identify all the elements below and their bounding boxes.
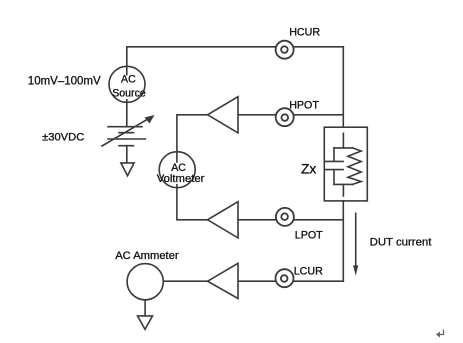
ground (below ammeter)	[138, 316, 153, 330]
DUT internal: bottom bar	[334, 183, 353, 185]
resistor R (DUT right branch zigzag)	[348, 148, 361, 185]
DUT internal: bottom stem	[342, 184, 344, 196]
op-amp U1 (HPOT buffer)	[208, 97, 238, 133]
svg-text:Voltmeter: Voltmeter	[157, 173, 205, 185]
terminal HPOT	[276, 108, 294, 126]
svg-text:Zx: Zx	[301, 161, 316, 176]
svg-text:LCUR: LCUR	[294, 265, 323, 277]
wire: AC source to DC bias battery	[126, 100, 128, 127]
arrow: DUT current	[353, 213, 358, 275]
battery B1 (variable DC bias +-30VDC)	[102, 115, 155, 146]
terminal LPOT	[276, 208, 294, 226]
wire: ammeter to ground	[144, 300, 146, 316]
wire: LCUR row	[238, 280, 343, 282]
op-amp U2 (LPOT buffer)	[208, 202, 238, 238]
ground (below DC bias)	[121, 163, 134, 176]
svg-text:±30VDC: ±30VDC	[42, 132, 84, 144]
meter M1 (AC Voltmeter circle)	[159, 152, 195, 188]
capacitor C (DUT left branch)	[326, 148, 344, 185]
wire: LPOT row	[238, 219, 343, 221]
DUT Zx box	[324, 127, 367, 201]
svg-text:10mV–100mV: 10mV–100mV	[28, 75, 101, 87]
source V1 (AC Source circle)	[109, 66, 145, 102]
label AC Voltmeter	[157, 162, 205, 185]
svg-text:DUT current: DUT current	[370, 236, 433, 248]
wire: top HCUR wire from AC source down-stub and corner to right bus	[127, 47, 343, 75]
wire: right vertical bus from HCUR corner to Zx box top	[342, 47, 344, 127]
wire: HPOT buffer output to voltmeter top	[177, 115, 208, 162]
wire: HPOT row	[238, 114, 343, 116]
wire: LCUR buffer output to ammeter	[163, 280, 207, 282]
meter M2 (AC Ammeter circle)	[127, 264, 163, 300]
svg-text:AC: AC	[171, 162, 186, 174]
wire: battery to ground	[126, 146, 128, 163]
DUT internal: top bar	[334, 147, 353, 149]
svg-text:HCUR: HCUR	[289, 27, 320, 39]
wire: right vertical bus from Zx box bottom to LCUR row	[342, 201, 344, 281]
svg-text:AC Ammeter: AC Ammeter	[115, 250, 179, 262]
svg-text:LPOT: LPOT	[295, 229, 323, 241]
svg-text:Source: Source	[112, 88, 146, 100]
svg-text:HPOT: HPOT	[289, 99, 319, 111]
svg-text:AC: AC	[121, 74, 136, 86]
terminal HCUR	[276, 41, 294, 59]
op-amp U3 (LCUR buffer)	[208, 263, 238, 298]
return mark (gray pilcrow arrow bottom right)	[436, 330, 444, 338]
wire: voltmeter bottom to LPOT buffer output	[177, 185, 208, 220]
DUT internal: top stem	[342, 133, 344, 148]
terminal LCUR	[276, 269, 294, 287]
label AC Source	[112, 74, 146, 100]
